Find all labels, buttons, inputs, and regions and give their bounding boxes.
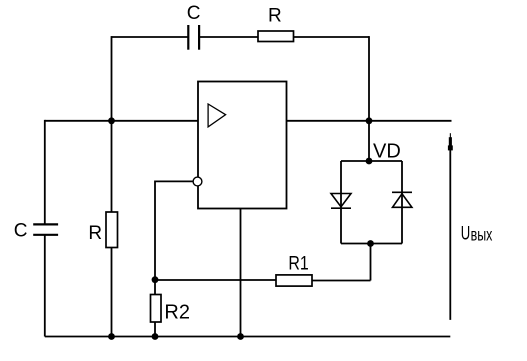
node junction at feedback/input — [108, 117, 115, 124]
wire inverting input vertical — [154, 181, 156, 280]
node junction inverting node — [152, 276, 159, 283]
resistor R1 — [276, 275, 312, 286]
wire R to right corner — [294, 36, 370, 38]
node junction R2 bottom — [152, 333, 159, 340]
wire R mid lower — [111, 248, 113, 337]
output arrow head — [448, 133, 453, 150]
capacitor C (left) — [33, 224, 58, 234]
svg-text:R2: R2 — [164, 302, 190, 324]
node junction output/feedback — [366, 117, 373, 124]
svg-text:R1: R1 — [288, 252, 308, 274]
wire between C and R — [199, 36, 258, 38]
svg-text:VD: VD — [373, 140, 401, 162]
node junction VD bottom — [367, 240, 374, 247]
wire main input bus — [45, 120, 198, 122]
wire top feedback left segment — [112, 36, 189, 38]
wire op-amp ground pin — [240, 209, 242, 337]
label U vyh — [461, 223, 493, 245]
wire R1 left segment — [155, 279, 276, 281]
node junction op-amp pin bottom — [237, 333, 244, 340]
node junction VD top — [366, 158, 373, 165]
svg-text:U: U — [461, 223, 470, 244]
svg-text:C: C — [187, 3, 201, 24]
node junction R bottom — [108, 333, 115, 340]
wire R mid upper — [111, 121, 113, 212]
capacitor C (top) — [188, 25, 199, 50]
diode VD left (anode up) — [331, 194, 351, 209]
wire right feedback vertical — [368, 36, 370, 121]
svg-text:R: R — [268, 5, 282, 26]
wire R2 bottom stub — [154, 322, 156, 337]
svg-text:вых: вых — [471, 226, 493, 246]
wire R1 right segment — [312, 280, 371, 282]
svg-text:C: C — [14, 221, 28, 242]
wire VD left through diode — [340, 161, 342, 244]
resistor R (top) — [258, 31, 294, 42]
wire R2 top stub — [154, 280, 156, 295]
wire bottom rail — [45, 336, 451, 338]
resistor R2 — [151, 295, 162, 323]
wire left vertical upper — [44, 120, 46, 224]
resistor R (mid vertical) — [106, 212, 118, 248]
output arrow line — [449, 149, 451, 320]
wire VD bottom to R1 level — [370, 244, 372, 281]
wire VD box bottom rail — [341, 243, 402, 245]
wire output to VD — [368, 121, 370, 161]
wire VD right through diode — [401, 161, 403, 244]
wire inverting input horizontal — [155, 180, 193, 182]
wire op-amp output bus — [287, 120, 452, 122]
wire left feedback vertical — [111, 36, 113, 121]
op-amp inverting input circle — [193, 177, 202, 186]
wire left vertical lower — [44, 235, 46, 337]
svg-text:R: R — [88, 223, 102, 244]
wire VD box top rail — [341, 160, 402, 162]
op-amp U1 body — [198, 82, 287, 209]
diode VD right (anode down) — [392, 192, 412, 207]
op-amp triangle symbol — [208, 104, 226, 127]
